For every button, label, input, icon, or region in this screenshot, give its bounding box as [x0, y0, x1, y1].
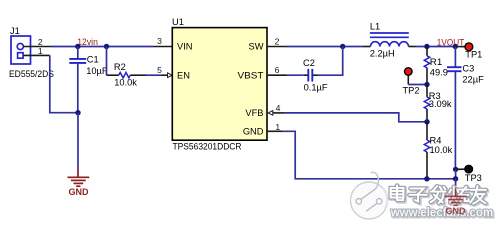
svg-text:6: 6	[275, 65, 280, 75]
svg-text:U1: U1	[172, 17, 184, 27]
junction at R4 / ground bus	[424, 176, 429, 181]
svg-text:5: 5	[157, 65, 162, 75]
junction at R3 / R4 / VFB	[424, 119, 429, 124]
svg-text:1: 1	[38, 46, 43, 56]
junction at L1 / R1	[424, 44, 429, 49]
U1 EN pin stub with arrow	[162, 74, 169, 76]
test point TP2	[405, 68, 413, 85]
svg-text:GND: GND	[69, 187, 90, 197]
svg-text:www.elecfans.com: www.elecfans.com	[390, 205, 493, 219]
ground GND (right)	[445, 188, 467, 205]
resistor R4	[424, 122, 429, 179]
svg-text:R2: R2	[114, 62, 126, 72]
resistor R3	[424, 85, 429, 122]
svg-text:4: 4	[276, 103, 281, 113]
J1 pin 1 lead	[23, 54, 50, 56]
resistor R2	[107, 73, 147, 78]
svg-text:TP3: TP3	[465, 173, 482, 183]
wire down to GND	[77, 113, 79, 170]
U1 VIN pin stub	[154, 46, 173, 48]
svg-text:ED555/2DS: ED555/2DS	[9, 69, 54, 79]
svg-text:TP1: TP1	[465, 50, 482, 60]
svg-text:VBST: VBST	[238, 70, 264, 80]
svg-text:49.9: 49.9	[430, 67, 448, 77]
svg-text:3.09k: 3.09k	[429, 99, 452, 109]
svg-text:J1: J1	[10, 26, 20, 36]
svg-text:TPS563201DDCR: TPS563201DDCR	[173, 142, 242, 152]
connector J1 body	[11, 36, 31, 64]
wire TP3 node to ground bus	[455, 169, 457, 178]
svg-text:2.2µH: 2.2µH	[370, 48, 395, 58]
svg-text:VIN: VIN	[177, 42, 193, 52]
capacitor C2	[304, 69, 318, 82]
svg-text:10.0k: 10.0k	[114, 77, 137, 87]
junction at EN branch tap	[104, 44, 109, 49]
svg-text:2: 2	[275, 36, 280, 46]
U1 VFB pin stub with arrow	[268, 111, 273, 116]
wire J1 pin1 to ground node	[50, 55, 78, 112]
J1 pin 2 lead	[23, 46, 51, 48]
svg-text:22µF: 22µF	[462, 74, 484, 84]
test point TP3	[456, 165, 473, 173]
svg-text:GND: GND	[243, 127, 264, 137]
wire TP2 to R1/R3 node	[408, 84, 427, 86]
U1 VBST pin stub	[267, 74, 287, 76]
wire U1 GND to ground bus	[282, 131, 456, 179]
svg-text:C3: C3	[462, 63, 474, 73]
svg-text:C2: C2	[303, 58, 315, 68]
junction at SW / C2 tap	[340, 44, 345, 49]
junction at C1 / J1 pin1 / GND	[75, 110, 80, 115]
wire VBST to C2	[287, 74, 304, 76]
svg-text:1: 1	[275, 122, 280, 132]
wire stub to right GND	[455, 179, 457, 189]
svg-text:L1: L1	[370, 22, 380, 32]
svg-text:SW: SW	[249, 42, 264, 52]
svg-text:R1: R1	[430, 57, 443, 67]
svg-text:TP2: TP2	[403, 85, 420, 95]
U1 GND pin stub	[267, 130, 282, 132]
svg-text:GND: GND	[446, 206, 467, 216]
wire C2 branch	[318, 47, 343, 76]
junction at 12vin / C1 tap	[75, 44, 80, 49]
junction at C3 / TP1	[453, 44, 458, 49]
junction at ground bus / GND symbol	[453, 176, 458, 181]
svg-text:3: 3	[157, 36, 162, 46]
svg-text:C1: C1	[87, 55, 99, 65]
wire VOUT rail	[416, 46, 455, 48]
wire R2 to EN pin	[146, 74, 162, 76]
op-amp U1 body (TPS563201DDCR)	[172, 28, 267, 141]
svg-text:0.1µF: 0.1µF	[304, 82, 328, 92]
resistor R1	[424, 47, 429, 85]
capacitor C1	[69, 47, 86, 113]
junction at C3 / TP3	[453, 167, 458, 172]
junction at R1 / R3 / TP2	[424, 82, 429, 87]
svg-text:10.0k: 10.0k	[430, 145, 453, 155]
wire 12vin rail from J1 pin2 to U1 VIN	[51, 46, 154, 48]
U1 SW pin stub	[267, 46, 287, 48]
test point TP1	[455, 43, 473, 51]
watermark logo disc	[351, 172, 388, 219]
wire EN branch vertical	[106, 47, 108, 76]
inductor L1	[362, 33, 416, 47]
wire VFB feedback	[285, 113, 427, 122]
svg-text:VFB: VFB	[245, 108, 263, 118]
svg-text:EN: EN	[177, 70, 190, 80]
capacitor C3	[447, 47, 462, 170]
wire SW rail	[287, 46, 363, 48]
ground GND (left)	[68, 169, 90, 186]
svg-text:10µF: 10µF	[86, 66, 108, 76]
